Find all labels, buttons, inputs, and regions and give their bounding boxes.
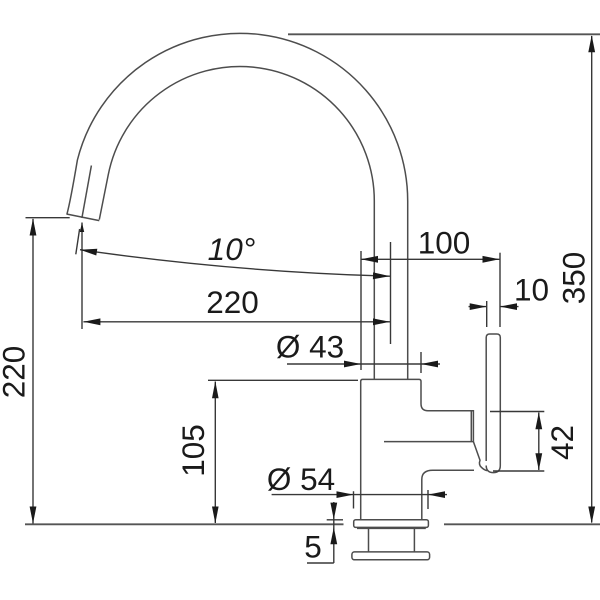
extension lever right (499, 253, 501, 327)
spout inner curve and pipe left edge (99, 66, 374, 379)
dimension 10 lines (469, 306, 519, 308)
arrow tip vertex (80, 223, 84, 233)
svg-text:100: 100 (418, 225, 471, 261)
svg-text:Ø 54: Ø 54 (267, 461, 335, 497)
dimension 5 line (333, 502, 335, 563)
extension lever left (486, 301, 488, 327)
dimension 42 line (538, 413, 540, 471)
extension body left (360, 251, 362, 370)
arrow 220 left up (30, 219, 37, 236)
spout aerator seam (82, 166, 92, 219)
arrow dia43 left (344, 361, 361, 368)
arrow 100 right (483, 256, 500, 263)
dimension 220 left line (32, 219, 34, 524)
svg-text:350: 350 (556, 252, 592, 305)
dia54 ticks (354, 490, 429, 509)
arrow dia54 left (337, 491, 354, 498)
extension line spout top (288, 33, 600, 35)
angle arc 10 deg (80, 250, 390, 277)
dimension dia54 line (272, 494, 447, 496)
flange lip (357, 527, 426, 529)
arrow 350 down (588, 507, 595, 524)
dimension dia43 line (287, 363, 440, 365)
svg-text:5: 5 (304, 529, 322, 565)
extension pipe axis (390, 242, 392, 344)
arrow 10 left (470, 303, 487, 310)
svg-text:220: 220 (206, 284, 259, 320)
arrow 100 left (361, 256, 378, 263)
tip vertical extension (81, 223, 83, 330)
arrow 42 down (535, 453, 542, 470)
angle reference tick (76, 229, 80, 254)
svg-text:220: 220 (0, 346, 32, 399)
spout tip end face (67, 214, 100, 221)
cartridge double line (470, 412, 472, 442)
arrow 105 down (212, 507, 219, 524)
faucet body upper outline (361, 379, 474, 519)
arrow dia43 right (421, 361, 438, 368)
spout outer curve and pipe right edge (67, 33, 408, 379)
mounting shank (369, 529, 415, 552)
svg-text:105: 105 (175, 424, 211, 477)
dimension 350 line (591, 36, 593, 523)
arrow 105 up (212, 381, 219, 398)
dimension 5 ticks (327, 519, 343, 521)
arrow 220 h right (373, 318, 390, 325)
arrow 5 down (330, 503, 337, 520)
arrow 10 right (500, 303, 517, 310)
svg-text:42: 42 (544, 425, 580, 460)
arrow 220 left down (30, 507, 37, 524)
arrow dia54 right (428, 491, 445, 498)
locknut flange (352, 552, 430, 560)
svg-text:10: 10 (514, 272, 549, 308)
dimension 100 line (361, 258, 500, 260)
arrow 5 up (330, 527, 337, 544)
arrow angle arc right (373, 272, 390, 279)
arrow 42 up (535, 412, 542, 429)
arrow angle arc left (80, 249, 97, 256)
lever handle (486, 334, 500, 473)
arrow 350 up (588, 35, 595, 52)
counter baseline (25, 523, 600, 525)
faucet body lower right outline (422, 470, 474, 519)
dimension 105 line (214, 382, 216, 524)
dimension 220 horizontal line (83, 321, 390, 323)
svg-text:Ø 43: Ø 43 (276, 329, 344, 365)
svg-text:10°: 10° (208, 231, 256, 267)
joint diagonal and bulb (473, 442, 487, 471)
arrow 220 h left (83, 318, 100, 325)
dia43 right tick (420, 352, 422, 373)
dimension 105 top tick (208, 379, 358, 381)
body mid seam (384, 441, 473, 443)
dimension 220 left extension (26, 217, 70, 219)
base flange (354, 520, 429, 528)
dimension 5 leader (307, 562, 334, 564)
dimension 42 ticks (490, 412, 544, 472)
